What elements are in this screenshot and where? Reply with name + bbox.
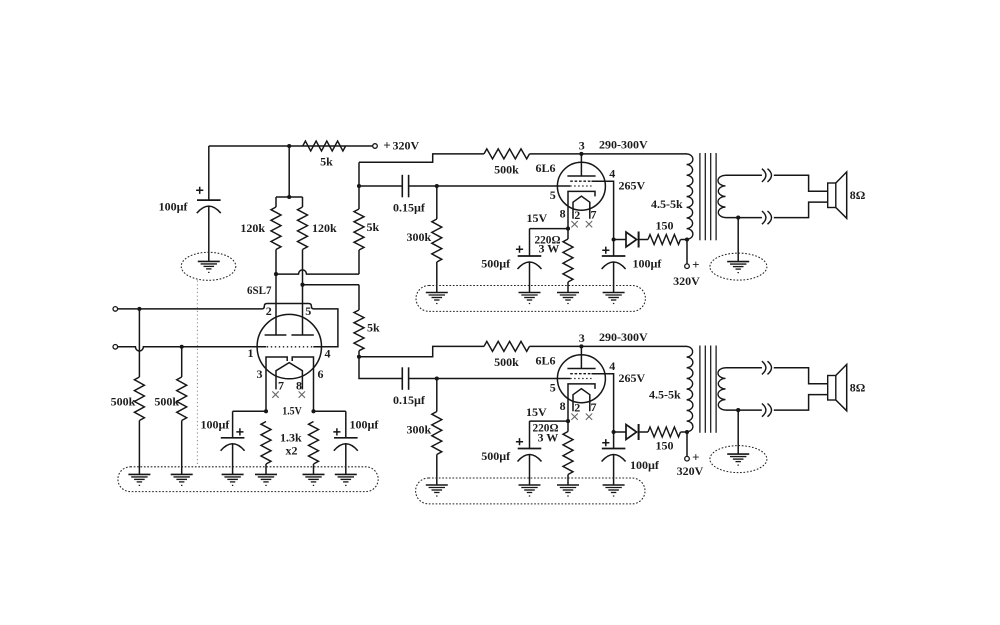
svg-text:300k: 300k [407,230,432,244]
svg-text:2: 2 [574,208,580,222]
svg-text:265V: 265V [619,179,646,193]
wire coupling B to 0.15uf [359,357,402,379]
resistor 5k (B+ dropper) [303,141,346,151]
wire 0.15uf to 6L6 grid ch2 [409,378,571,380]
wire secondary top ch2 [726,368,828,384]
node coupling B [357,355,361,359]
svg-text:500k: 500k [111,395,136,409]
resistor 150 ch1 [639,239,648,241]
svg-text:4: 4 [609,167,615,181]
wire B+ down to 120k pair [288,146,290,197]
resistor 5k (feedback divider upper) [358,250,360,274]
ground [303,473,325,475]
tube 6SL7 envelope [257,314,321,378]
svg-text:8Ω: 8Ω [850,188,866,202]
ground [557,484,579,486]
svg-text:6L6: 6L6 [536,354,556,368]
svg-text:3: 3 [579,331,585,345]
svg-text:0.15µf: 0.15µf [393,393,426,407]
plate bar A [275,274,277,335]
svg-text:1.5V: 1.5V [282,404,302,418]
svg-text:6: 6 [318,367,324,381]
wire 0.15uf to 6L6 grid [409,185,571,187]
svg-text:15V: 15V [526,405,547,419]
svg-text:5k: 5k [367,220,380,234]
cathode B bracket [292,357,313,411]
node coupling A [357,184,361,188]
input terminal 2 [113,345,118,350]
wire secondary top ch1 [726,175,828,191]
terminal +320V [373,144,378,149]
svg-text:320V: 320V [393,139,420,153]
svg-text:5: 5 [305,304,311,318]
plate bar B [300,283,304,287]
svg-text:300k: 300k [407,423,432,437]
resistor 500k (input 1) [138,309,140,377]
svg-text:4.5-5k: 4.5-5k [651,197,683,211]
wire feedback run to 500k and 6L6 plate line [359,154,484,162]
svg-text:8: 8 [560,207,566,221]
node transformer bottom ch1 [685,237,689,241]
ground [222,473,244,475]
ground [426,484,448,486]
plate ch1 [580,154,582,176]
svg-text:5: 5 [550,188,556,202]
node plate A [274,272,278,276]
wire feedback run ch2 [359,346,484,356]
grid dotted line [267,346,313,348]
plate ch2 [580,346,582,368]
svg-text:1: 1 [248,346,254,360]
resistor 120k (left plate load) [275,197,277,207]
resistor 300k (ch1 grid leak) [436,186,438,219]
capacitor 0.15uf (ch2 coupling) [401,367,403,390]
capacitor 100uf ch1 (screen filter) [613,240,615,257]
svg-text:3: 3 [579,139,585,153]
wire coupling A to 0.15uf [359,185,402,187]
node input 1 / 500k [137,307,141,311]
transformer ch1 core [699,153,701,240]
node secondary ground ch2 [736,408,740,412]
ground secondary ch1 [737,218,739,262]
svg-text:500k: 500k [494,163,519,177]
svg-text:8Ω: 8Ω [850,381,866,395]
wire secondary bottom ch1 [726,202,828,218]
node cathode ch1 [566,227,570,231]
svg-text:5: 5 [550,381,556,395]
svg-text:265V: 265V [619,371,646,385]
svg-text:2: 2 [574,401,580,415]
wire 15V node ch1 [530,228,569,230]
svg-text:320V: 320V [673,274,700,288]
svg-text:500k: 500k [154,395,179,409]
svg-text:1.3k: 1.3k [280,431,302,445]
svg-text:3 W: 3 W [538,431,559,445]
capacitor 100uf (cathode B bypass) [345,411,347,438]
wire plate A to 5k (hop over right 120k lead) [276,270,359,274]
resistor 5k (feedback divider lower) [358,285,360,310]
svg-text:8: 8 [560,399,566,413]
node cathode B [311,409,315,413]
diode ch1 [614,239,626,241]
svg-text:7: 7 [591,208,597,222]
ground [519,484,541,486]
node cathode ch2 [566,419,570,423]
ground [603,292,625,294]
node pin 3 plate ch2 [579,344,583,348]
svg-text:120k: 120k [240,221,265,235]
capacitor 500uf ch2 [529,421,531,448]
svg-text:2: 2 [266,304,272,318]
svg-text:100µf: 100µf [630,458,660,472]
svg-text:500k: 500k [494,355,519,369]
speaker 8ohm ch2 [828,376,836,401]
node grid ch2 [435,376,439,380]
ground [557,292,579,294]
screen grid ch2 (pin 4) [570,373,591,375]
wire plate B to lower 5k [303,284,360,286]
svg-text:5k: 5k [367,321,380,335]
svg-text:120k: 120k [312,221,337,235]
svg-text:100µf: 100µf [633,257,663,271]
wire secondary bottom ch2 [726,395,828,411]
ground [255,473,277,475]
svg-text:4: 4 [609,359,615,373]
svg-text:7: 7 [278,379,284,393]
node B+ junction [287,144,291,148]
ground [603,484,625,486]
tube 6L6 ch2 envelope [557,355,605,403]
wire input 2 to pin 1 (hop over 500k lead) [118,347,267,351]
heater x marks [272,391,278,397]
node grid ch1 [435,184,439,188]
capacitor 100uf ch2 (screen filter) [613,432,615,449]
transformer ch1 primary 4.5-5k [687,154,693,239]
ground [335,473,357,475]
resistor 1.3k (cathode B) [309,422,319,465]
resistor 150 ch2 [639,431,648,433]
tube 6L6 ch1 envelope [557,162,605,210]
terminal +320V ch1 [686,240,688,264]
svg-text:15V: 15V [527,211,548,225]
ground bus ch2 [416,478,645,504]
resistor 220ohm 3W ch1 [567,229,569,239]
node cathode A [264,409,268,413]
svg-text:3: 3 [257,367,263,381]
svg-text:6SL7: 6SL7 [247,283,272,297]
cathode ch1 (pin 8) [568,191,595,228]
ground bus driver [118,467,378,492]
node screen filter ch2 [612,430,616,434]
svg-text:150: 150 [656,439,674,453]
ground [128,473,150,475]
svg-text:150: 150 [656,219,674,233]
capacitor 100uf (driver supply filter) [208,146,210,200]
ground bus ch1 [416,286,645,312]
svg-text:100µf: 100µf [350,418,380,432]
resistor 220ohm 3W ch2 [567,421,569,431]
svg-text:100µf: 100µf [159,200,189,214]
node transformer bottom ch2 [685,430,689,434]
resistor 500k (input 2) [181,347,183,377]
wire input 1 around tube to pin 4 [118,304,338,347]
resistor 500k (feedback, ch2) [484,341,530,351]
svg-text:4: 4 [325,347,331,361]
node secondary ground ch1 [736,216,740,220]
diode ch2 [614,431,626,433]
capacitor 500uf ch1 [529,229,531,256]
transformer ch2 primary 4.5-5k [687,346,693,431]
cathode A bracket [266,357,287,411]
svg-text:500µf: 500µf [481,257,511,271]
control grid ch1 (pin 5) [570,185,591,187]
heater filament [276,363,302,390]
wire plate line ch2 to transformer [530,345,688,347]
control grid ch2 (pin 5) [570,378,591,380]
wire cathode B to 100uf [314,410,346,412]
speaker 8ohm ch1 [828,183,836,208]
svg-text:+: + [692,450,699,465]
svg-text:6L6: 6L6 [536,161,556,175]
resistor 120k (right plate load) [302,197,304,207]
ground secondary ch2 [737,410,739,454]
transformer ch2 core [699,346,701,433]
terminal +320V ch2 [686,432,688,456]
svg-text:4.5-5k: 4.5-5k [649,387,681,401]
input terminal 1 [113,307,118,312]
transformer ch2 secondary [718,368,726,410]
ground [519,292,541,294]
resistor 500k (feedback, ch1) [484,149,530,159]
resistor 300k (ch2 grid leak) [436,379,438,412]
node screen filter ch1 [612,237,616,241]
heater ch1 [573,196,590,219]
resistor 1.3k (cathode A) [261,422,271,465]
svg-text:8: 8 [296,379,302,393]
svg-text:290-300V: 290-300V [599,330,648,344]
ground [426,292,448,294]
svg-text:500µf: 500µf [481,449,511,463]
grey dotted ground link [196,280,198,466]
ground [171,473,193,475]
svg-text:3 W: 3 W [539,242,560,256]
svg-text:100µf: 100µf [200,418,230,432]
wire plate line to transformer [530,153,688,155]
svg-text:290-300V: 290-300V [599,138,648,152]
svg-text:+: + [692,257,699,272]
screen grid ch1 (pin 4) [570,180,591,182]
svg-text:0.15µf: 0.15µf [393,201,426,215]
transformer ch1 secondary [718,175,726,217]
wire B+ top rail to +320V terminal [209,145,373,147]
node input 2 / 500k [180,345,184,349]
wire cathode A to 100uf [233,410,266,412]
ground (driver filter cap) [208,206,210,261]
capacitor 100uf (cathode A bypass) [232,411,234,438]
cathode ch2 (pin 8) [568,384,595,421]
node pin 3 plate ch1 [579,152,583,156]
svg-text:+: + [383,138,390,153]
capacitor 0.15uf (ch1 coupling) [401,175,403,198]
svg-text:5k: 5k [320,155,333,169]
svg-text:320V: 320V [677,464,704,478]
svg-text:x2: x2 [286,444,298,458]
wire 120k top bus [276,196,303,198]
wire 15V node ch2 [530,420,569,422]
heater ch2 [573,389,590,412]
svg-text:7: 7 [591,400,597,414]
